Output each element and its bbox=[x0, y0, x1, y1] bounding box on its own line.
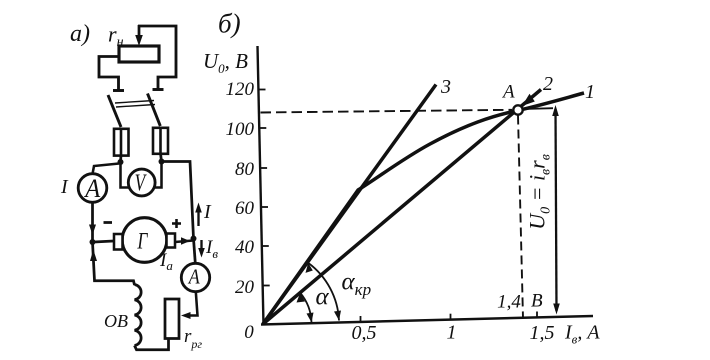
node N3 bbox=[90, 239, 96, 245]
fuse F2 bbox=[153, 128, 168, 154]
svg-text:а): а) bbox=[70, 21, 90, 47]
curve 2 field resistance line bbox=[263, 90, 541, 325]
y axis bbox=[258, 46, 264, 325]
y tick 20 bbox=[263, 285, 270, 287]
svg-text:Iв, А: Iв, А bbox=[564, 322, 600, 347]
angle arc alpha bbox=[300, 293, 311, 323]
svg-text:1: 1 bbox=[585, 81, 595, 103]
generator G bbox=[122, 218, 167, 263]
field winding OV bbox=[135, 285, 142, 346]
node N1 bbox=[118, 159, 124, 165]
svg-text:А: А bbox=[501, 82, 515, 103]
switch right blade bbox=[148, 94, 161, 127]
angle arc alpha critical bbox=[308, 263, 339, 321]
minus sign bbox=[104, 221, 113, 224]
svg-text:100: 100 bbox=[226, 119, 255, 140]
svg-text:α: α bbox=[316, 284, 330, 311]
switch insulating crossbar bbox=[115, 101, 154, 104]
wire bus to field ammeter bbox=[194, 239, 196, 264]
field ammeter A2 bbox=[181, 263, 209, 291]
switch right jaw contact bbox=[153, 88, 164, 91]
x tick 1.5 bbox=[536, 312, 538, 319]
wire node N3 down to field winding with arrow up bbox=[93, 242, 135, 285]
dashed vertical from A to axis bbox=[518, 116, 523, 319]
wire generator plus to node N4 with armature current arrow I_a bbox=[175, 241, 193, 243]
svg-text:I: I bbox=[60, 176, 69, 198]
field rheostat r_rg bbox=[165, 299, 179, 339]
curve 3 critical resistance line bbox=[263, 85, 436, 325]
svg-text:60: 60 bbox=[235, 198, 255, 219]
svg-text:80: 80 bbox=[235, 159, 255, 180]
svg-text:I: I bbox=[203, 201, 212, 223]
y tick 120 bbox=[258, 89, 265, 91]
svg-text:В: В bbox=[531, 291, 543, 312]
wire left from rheostat down bbox=[99, 57, 119, 91]
generator right brush terminal bbox=[167, 234, 176, 248]
point A bbox=[513, 105, 522, 114]
svg-text:1,5: 1,5 bbox=[530, 322, 555, 344]
x tick 0.5 bbox=[360, 316, 362, 323]
y tick 40 bbox=[262, 245, 269, 247]
wire field ammeter to rheostat slider arrow bbox=[188, 292, 198, 316]
svg-text:А: А bbox=[83, 174, 100, 203]
svg-text:1: 1 bbox=[447, 322, 457, 344]
load rheostat r_n bbox=[119, 46, 159, 62]
svg-text:2: 2 bbox=[543, 73, 553, 95]
svg-text:0,5: 0,5 bbox=[352, 322, 377, 344]
wire voltmeter V to node N2 bbox=[154, 162, 162, 188]
curve 1 magnetization characteristic bbox=[263, 93, 584, 324]
solid segment A to arrow line bbox=[524, 107, 554, 110]
y tick 80 bbox=[260, 167, 267, 169]
wire fuse F1 to node N1 bbox=[119, 155, 122, 162]
wire field winding to field rheostat bbox=[135, 339, 169, 350]
y tick 60 bbox=[261, 206, 268, 208]
svg-text:0: 0 bbox=[244, 322, 254, 343]
svg-text:3: 3 bbox=[440, 76, 451, 98]
svg-text:Г: Г bbox=[137, 229, 148, 254]
y tick 100 bbox=[259, 127, 266, 129]
wire generator minus to node N3 bbox=[94, 241, 114, 242]
wire top from slider to right bus bbox=[138, 26, 176, 90]
wire ammeter A1 down to node N3 with current arrow bbox=[91, 202, 94, 242]
node N2 bbox=[159, 159, 165, 165]
svg-text:20: 20 bbox=[235, 277, 255, 298]
x axis bbox=[261, 316, 593, 325]
generator left brush terminal bbox=[114, 234, 123, 250]
svg-text:V: V bbox=[135, 171, 147, 197]
svg-text:б): б) bbox=[218, 9, 241, 39]
plus sign bbox=[172, 222, 181, 225]
current arrow I_v down on bus bbox=[200, 240, 202, 250]
svg-text:А: А bbox=[187, 265, 200, 289]
wire node N1 to voltmeter V bbox=[121, 162, 130, 188]
svg-text:120: 120 bbox=[226, 79, 255, 100]
rheostat slider arrow bbox=[135, 25, 143, 46]
svg-text:U0 = iвrв: U0 = iвrв bbox=[525, 154, 554, 230]
wire node N1 to ammeter A1 bbox=[93, 164, 120, 175]
switch left jaw contact bbox=[113, 89, 124, 92]
dashed horizontal U0 level bbox=[261, 110, 513, 113]
vertical double arrow U0 = i_v r_v bbox=[556, 109, 557, 311]
svg-text:40: 40 bbox=[235, 237, 255, 258]
svg-text:ОВ: ОВ bbox=[104, 311, 128, 331]
svg-text:U0, В: U0, В bbox=[203, 49, 248, 76]
voltmeter V bbox=[128, 169, 155, 196]
fuse F1 bbox=[114, 129, 129, 156]
current arrow I up on right bus bbox=[197, 208, 199, 226]
node N4 plus terminal junction bbox=[191, 236, 197, 242]
svg-text:1,4: 1,4 bbox=[497, 292, 521, 313]
ammeter A1 bbox=[78, 174, 107, 203]
wire fuse F2 to node N2 bbox=[161, 153, 162, 162]
switch left blade bbox=[108, 95, 121, 127]
x tick 1 bbox=[450, 314, 452, 321]
wire node N2 to right bus bbox=[162, 162, 194, 239]
